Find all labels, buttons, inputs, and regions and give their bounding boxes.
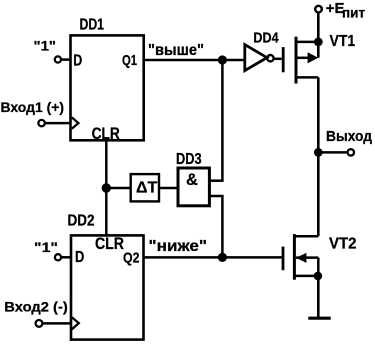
VT1 source stub (top) [296, 41, 318, 44]
svg-text:Вход1 (+): Вход1 (+) [1, 99, 65, 115]
svg-text:D: D [75, 249, 84, 266]
svg-text:D: D [73, 53, 82, 70]
inverter DD4 triangle [245, 45, 267, 71]
junction node at VT1 source [314, 38, 323, 47]
VT1 channel bar [295, 37, 298, 84]
VT2 gate electrode bar [282, 247, 285, 271]
wire output junction to terminal [318, 151, 347, 154]
wire "1" to DD1 D input [61, 58, 70, 61]
wire VT2 source to ground [317, 276, 320, 317]
wire ΔT to DD3 [159, 187, 178, 190]
inverter DD4 output bubble [267, 55, 273, 61]
DD2 clock input triangle [72, 317, 79, 329]
VT2 source stub (bottom) [294, 275, 319, 278]
D flip-flop DD1 body [71, 35, 144, 140]
wire +Eпит to VT1 source [317, 13, 320, 58]
wire VT1 drain to VT2 drain (output net) [317, 77, 320, 236]
wire DD3 bottom input down to "ниже" net [221, 196, 224, 257]
VT2 channel bar [293, 234, 296, 280]
terminal circle "1" top [55, 56, 61, 62]
wire "1" to DD2 D input [62, 256, 72, 259]
svg-text:CLR: CLR [95, 235, 124, 253]
VT1 substrate arrow head [308, 52, 319, 63]
junction node on "ниже" net [218, 253, 227, 262]
svg-text:&: & [186, 171, 198, 189]
VT1 drain stub (bottom) [296, 76, 318, 79]
wire Q1 output to DD4 input (net "выше") [144, 59, 245, 62]
VT2 substrate arrow head [296, 253, 307, 263]
svg-text:DD3: DD3 [176, 151, 202, 168]
VT1 substrate stub with arrow [296, 57, 309, 60]
svg-text:пит: пит [342, 6, 365, 21]
wire DD4 output to VT1 gate [274, 58, 282, 61]
VT2 drain stub (top) [294, 235, 318, 238]
terminal circle "1" bottom [55, 254, 61, 260]
D flip-flop DD2 body [71, 235, 144, 339]
svg-text:DD1: DD1 [80, 16, 105, 33]
svg-text:Q1: Q1 [122, 52, 137, 69]
terminal circle Вход2 [36, 320, 43, 327]
DD1 clock input triangle [72, 117, 79, 128]
svg-text:VT1: VT1 [330, 33, 356, 50]
svg-text:ΔT: ΔT [136, 179, 158, 196]
svg-text:DD2: DD2 [68, 213, 95, 230]
wire Вход2 to DD2 clock input [43, 322, 71, 325]
terminal circle Вход1 [38, 120, 44, 126]
svg-text:"1": "1" [34, 37, 57, 53]
svg-text:VT2: VT2 [329, 236, 357, 253]
svg-text:Q2: Q2 [123, 250, 140, 267]
svg-text:"выше": "выше" [148, 42, 204, 59]
wire Q2 output to VT2 gate (net "ниже") [144, 256, 282, 259]
wire junction down to DD3 top input [221, 60, 224, 181]
wire CLR junction to delay element [106, 187, 130, 190]
terminal circle Выход [348, 149, 354, 155]
svg-text:CLR: CLR [92, 125, 120, 143]
svg-text:Вход2 (-): Вход2 (-) [4, 299, 67, 315]
junction node on "выше" net [218, 55, 227, 64]
svg-text:DD4: DD4 [253, 29, 279, 46]
AND gate DD3 body [178, 168, 209, 206]
wire DD3 bottom input stub [209, 195, 223, 198]
wire VT2 substrate to source [317, 258, 320, 276]
svg-text:"ниже": "ниже" [149, 238, 208, 255]
junction node on CLR net [102, 183, 111, 192]
junction node at VT2 source [314, 272, 323, 281]
delay element ΔT body [131, 174, 159, 201]
VT1 gate electrode bar [282, 47, 285, 72]
svg-text:"1": "1" [34, 239, 58, 255]
wire Вход1 to DD1 clock input [45, 122, 70, 125]
VT2 substrate stub [296, 256, 318, 259]
wire DD1 CLR down to DD2 CLR [105, 140, 108, 235]
terminal circle +Eпит [315, 6, 322, 13]
wire DD3 top input stub [209, 179, 223, 182]
ground [308, 317, 330, 320]
svg-text:Выход: Выход [326, 129, 372, 145]
junction node on output net [314, 148, 323, 157]
